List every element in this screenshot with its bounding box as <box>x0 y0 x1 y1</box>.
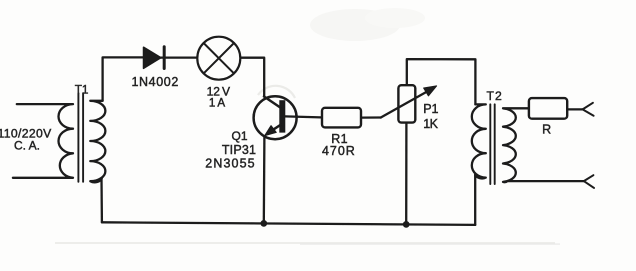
svg-text:Q1: Q1 <box>231 129 247 143</box>
transformer T2 core <box>490 104 494 184</box>
diode D1 1N4002 <box>144 47 165 69</box>
ghost echo of transistor circle <box>258 86 295 98</box>
transformer T2 secondary winding <box>503 108 584 182</box>
junction dot Q1 emitter / bottom rail <box>260 220 267 227</box>
svg-text:1N4002: 1N4002 <box>132 75 179 89</box>
transistor Q1 <box>254 96 321 139</box>
wire P1 top lead to T2 primary <box>407 59 476 104</box>
wire lamp to Q1 collector <box>241 58 264 97</box>
svg-text:T2: T2 <box>487 89 503 103</box>
svg-text:R: R <box>542 123 551 137</box>
output terminal top chevron <box>583 103 594 116</box>
resistor R1 470R <box>322 108 361 128</box>
lamp 12V 1A <box>197 37 240 80</box>
bottom rail wire <box>102 222 475 225</box>
wire Q1 emitter down to bottom rail <box>263 136 266 224</box>
wire T1 secondary bottom lead <box>100 178 103 222</box>
junction dot P1 / bottom rail <box>403 221 410 228</box>
svg-text:1K: 1K <box>423 117 438 131</box>
svg-text:1A: 1A <box>209 96 225 109</box>
svg-text:2N3055: 2N3055 <box>205 157 255 171</box>
wire P1 bottom lead to bottom rail <box>405 124 407 225</box>
transformer T2 primary winding <box>472 104 486 178</box>
svg-text:470R: 470R <box>322 144 356 158</box>
scan fold streak <box>55 242 555 244</box>
svg-text:C. A.: C. A. <box>14 139 40 153</box>
scan smudge top center <box>310 9 400 41</box>
wire T1 secondary top lead to diode <box>103 57 144 100</box>
wire diode to lamp <box>161 56 196 58</box>
wire R1 to P1 wiper <box>362 116 381 118</box>
wire R to output terminal <box>568 108 582 110</box>
transformer T1 primary winding <box>13 104 73 178</box>
resistor R <box>529 98 567 119</box>
transformer T1 core <box>78 93 83 182</box>
wire T2 primary bottom lead <box>474 175 476 225</box>
potentiometer P1 body <box>398 85 415 122</box>
svg-text:TIP31: TIP31 <box>222 143 256 157</box>
svg-text:P1: P1 <box>423 102 438 116</box>
svg-text:T1: T1 <box>75 82 89 96</box>
transformer T1 secondary winding <box>90 101 105 183</box>
potentiometer P1 wiper arrow <box>381 86 437 118</box>
output terminal bottom chevron <box>584 175 594 188</box>
